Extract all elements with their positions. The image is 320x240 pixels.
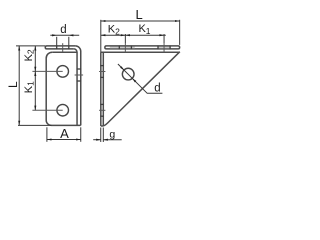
svg-text:d: d — [60, 24, 66, 36]
svg-text:K1: K1 — [138, 23, 150, 36]
svg-text:K2: K2 — [108, 24, 120, 37]
svg-text:L: L — [6, 81, 20, 88]
svg-text:g: g — [109, 128, 115, 140]
svg-text:K1: K1 — [23, 81, 36, 93]
svg-text:A: A — [60, 126, 69, 141]
svg-text:L: L — [136, 7, 143, 22]
svg-text:K2: K2 — [23, 49, 36, 61]
svg-text:d: d — [154, 83, 160, 95]
